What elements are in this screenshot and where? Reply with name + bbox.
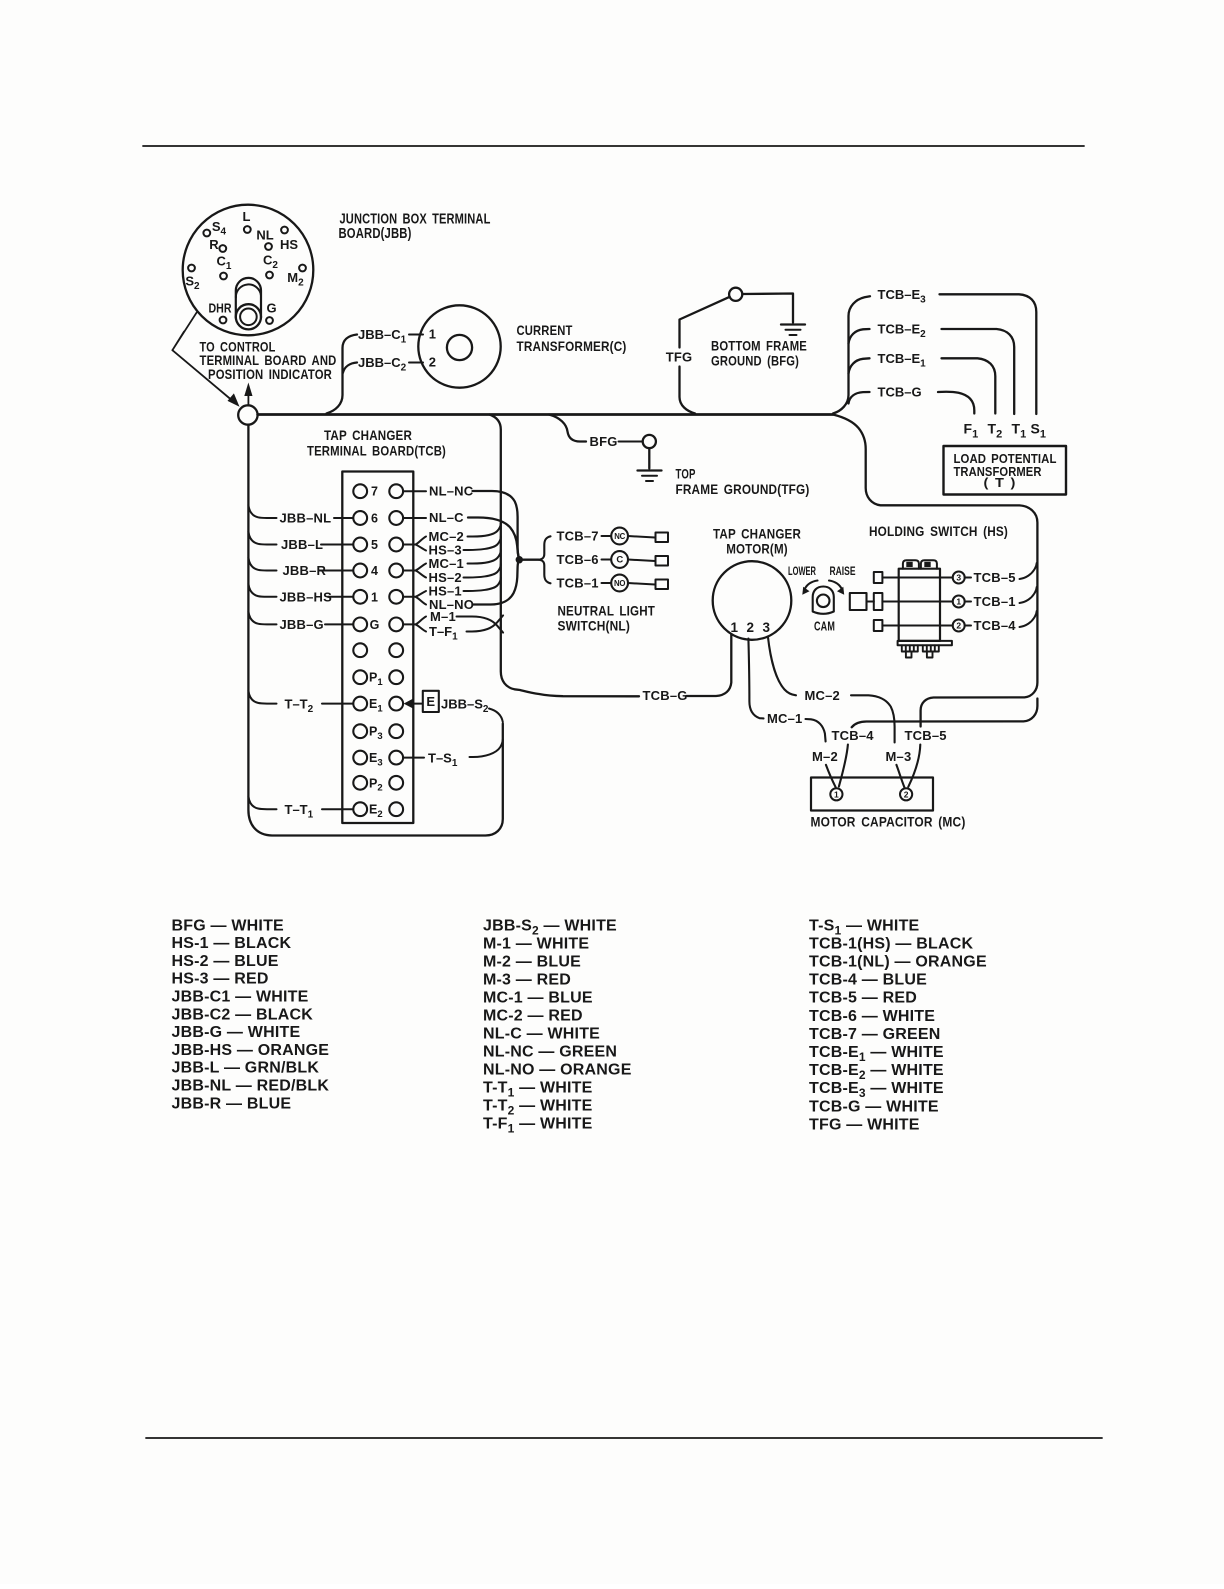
- wire TCB–6 to contact: [602, 559, 611, 561]
- svg-text:C: C: [616, 554, 623, 565]
- wire bundle stub MC-1: [468, 550, 501, 564]
- NL junction dot: [516, 556, 523, 563]
- wire HS 3 to label: [965, 577, 971, 579]
- NL lug NO: [656, 580, 669, 590]
- svg-text:JBB–C2: JBB–C2: [358, 355, 407, 374]
- TCB row 4 terminals: [353, 564, 367, 578]
- arrowhead at TCB E1: [404, 698, 414, 709]
- leader line to node with arrowhead: [172, 350, 231, 399]
- svg-text:E3: E3: [369, 751, 383, 768]
- HS feet group 1: [902, 645, 918, 651]
- svg-text:T1: T1: [1012, 421, 1027, 441]
- svg-text:5: 5: [371, 538, 378, 552]
- up arrow to position indicator: [247, 395, 249, 405]
- load potential transformer T box: [944, 446, 1067, 495]
- cam body: [813, 587, 834, 614]
- wire arrow to E box: [414, 703, 423, 705]
- HS row 1 line: [882, 601, 952, 603]
- wire branch TCB-G: [849, 392, 870, 404]
- wire JBB–G to TCB: [325, 623, 353, 625]
- wire big loop right: bus down to x866 right to x1037: [833, 415, 1037, 727]
- svg-text:TCB–6: TCB–6: [557, 552, 599, 567]
- wire to TFG ground symbol: [648, 448, 650, 468]
- svg-text:NL–NC: NL–NC: [429, 484, 474, 499]
- ground symbol TFG: [638, 469, 662, 471]
- JBB toggle bushing inner ring: [240, 309, 257, 326]
- wire bundle stub MC-2: [468, 523, 501, 537]
- svg-text:TCB–1: TCB–1: [557, 576, 599, 591]
- svg-text:M-3 — RED: M-3 — RED: [483, 971, 571, 988]
- wire hook TCB–5 to right trunk: [1020, 563, 1037, 579]
- svg-text:MC-1 — BLUE: MC-1 — BLUE: [483, 989, 593, 1006]
- wire TCB-G to F1: [938, 392, 974, 414]
- svg-text:M-2 — BLUE: M-2 — BLUE: [483, 953, 581, 970]
- top page rule: [143, 145, 1084, 147]
- wire hook left trunk to JBB-G: [248, 611, 276, 624]
- wire big loop left edge to TCB-G and motor terminal 1: [490, 415, 640, 697]
- wire T-T1 to TCB E2: [322, 808, 353, 810]
- svg-text:T-S1 — WHITE: T-S1 — WHITE: [809, 917, 920, 937]
- svg-text:M2: M2: [287, 270, 304, 289]
- wire JBB-C2 to CT pin 2: [409, 362, 423, 364]
- wire HS 1 to label: [965, 601, 971, 603]
- current transformer C outer ring: [418, 305, 500, 387]
- svg-text:NL-C — WHITE: NL-C — WHITE: [483, 1025, 600, 1042]
- main bus wire: [258, 413, 833, 416]
- svg-text:R: R: [209, 237, 219, 252]
- svg-text:1: 1: [730, 620, 738, 635]
- JBB terminal G: [266, 317, 273, 324]
- wire M-3 to capacitor 2: [896, 765, 904, 788]
- wire contact to lug: [628, 536, 655, 538]
- svg-text:L: L: [243, 209, 251, 224]
- svg-text:3: 3: [762, 620, 770, 635]
- svg-text:MC–2: MC–2: [805, 688, 840, 703]
- JBB terminal R: [219, 245, 226, 252]
- svg-text:TCB-7 — GREEN: TCB-7 — GREEN: [809, 1026, 941, 1043]
- TCB row 1 terminals: [353, 590, 367, 604]
- svg-text:TCB-1(HS) — BLACK: TCB-1(HS) — BLACK: [809, 935, 974, 952]
- svg-text:CAM: CAM: [814, 620, 835, 634]
- raise arrow arc: [829, 581, 842, 590]
- svg-text:( T ): ( T ): [984, 476, 1016, 490]
- wire hook left trunk to JBB-L: [248, 532, 276, 545]
- HS bottom flange: [898, 641, 952, 645]
- svg-text:JBB-HS — ORANGE: JBB-HS — ORANGE: [172, 1042, 330, 1059]
- wire fork TCB row to M-1 / T-F1: [403, 617, 426, 632]
- wire hook left trunk to JBB-HS: [248, 584, 276, 597]
- svg-text:RAISE: RAISE: [830, 566, 856, 578]
- wire hook left trunk to JBB-NL: [248, 505, 276, 518]
- NL lug NC: [656, 533, 669, 543]
- svg-text:TCB–E3: TCB–E3: [878, 287, 927, 306]
- wire JBB-S2 join to trunk: [489, 709, 503, 723]
- wire TCB–1 to contact: [602, 582, 611, 584]
- wire contact to lug: [628, 560, 655, 562]
- svg-text:T–T1: T–T1: [285, 802, 314, 821]
- wire TFG from bus: [680, 367, 696, 414]
- svg-text:E2: E2: [369, 803, 383, 820]
- wire hook left trunk to T-T1: [248, 796, 276, 809]
- svg-text:C1: C1: [217, 254, 232, 273]
- svg-text:JBB-G — WHITE: JBB-G — WHITE: [172, 1024, 301, 1041]
- top frame ground terminal circle: [643, 435, 656, 448]
- TCB row P3 terminals: [353, 724, 367, 738]
- svg-text:JBB–NL: JBB–NL: [280, 511, 332, 526]
- wire fork TCB row to MC-1 / HS-2: [403, 564, 426, 578]
- wire T-F1 crossing: [467, 615, 504, 631]
- svg-text:NL–C: NL–C: [429, 510, 464, 525]
- HS top cap right: [921, 560, 937, 569]
- JBB terminal S4: [203, 230, 210, 237]
- wire dot to brace: [523, 559, 539, 561]
- wire hook JBB-C2: [343, 363, 357, 374]
- svg-text:JBB-NL — RED/BLK: JBB-NL — RED/BLK: [172, 1078, 330, 1095]
- svg-text:NO: NO: [614, 579, 625, 588]
- svg-text:TCB-E2 — WHITE: TCB-E2 — WHITE: [809, 1062, 944, 1082]
- svg-text:HOLDING SWITCH (HS): HOLDING SWITCH (HS): [869, 523, 1008, 539]
- wire branch TCB-E2: [849, 329, 870, 344]
- JBB terminal C2: [266, 272, 273, 279]
- svg-text:MOTOR CAPACITOR (MC): MOTOR CAPACITOR (MC): [811, 814, 966, 830]
- link cam to HS: [867, 601, 874, 603]
- svg-text:4: 4: [371, 564, 378, 578]
- HS left square middle: [874, 593, 883, 610]
- JBB terminal C1: [220, 273, 227, 280]
- svg-text:BFG — WHITE: BFG — WHITE: [172, 917, 285, 934]
- JBB center toggle switch body: [236, 278, 261, 318]
- svg-text:TCB-G — WHITE: TCB-G — WHITE: [809, 1098, 939, 1115]
- NL brace: [539, 536, 551, 583]
- svg-text:TAP CHANGER: TAP CHANGER: [324, 427, 412, 443]
- svg-text:T-T2 — WHITE: T-T2 — WHITE: [483, 1097, 593, 1117]
- JBB terminal M2: [299, 265, 306, 272]
- JBB terminal NL: [265, 243, 272, 250]
- svg-text:T–T2: T–T2: [285, 696, 314, 715]
- TCB row G terminals: [353, 618, 367, 632]
- ground symbol BFG: [781, 323, 805, 325]
- svg-text:1: 1: [429, 327, 436, 342]
- HS top cap left: [903, 560, 919, 569]
- motor capacitor MC box: [811, 778, 933, 811]
- HS row 3 line: [882, 577, 952, 579]
- svg-text:TCB–E2: TCB–E2: [878, 322, 927, 341]
- wire TCB-G to motor terminal 1: [687, 635, 732, 697]
- wire BFG from bus: [549, 415, 586, 442]
- svg-text:E1: E1: [369, 697, 383, 714]
- wire TCB row7 to NL-NC: [403, 490, 426, 492]
- svg-text:MC-2 — RED: MC-2 — RED: [483, 1007, 583, 1024]
- svg-text:6: 6: [371, 512, 378, 526]
- svg-text:P1: P1: [369, 671, 383, 688]
- capacitor terminal 2: [900, 788, 912, 800]
- wire TCB–7 to contact: [602, 535, 611, 537]
- svg-text:TCB–5: TCB–5: [905, 728, 947, 743]
- svg-text:HS-1 — BLACK: HS-1 — BLACK: [172, 935, 292, 952]
- svg-text:TOP: TOP: [676, 466, 696, 482]
- tap changer terminal board TCB outline: [342, 472, 413, 824]
- TCB row P1 terminals: [353, 670, 367, 684]
- svg-text:TCB–4: TCB–4: [832, 728, 875, 743]
- svg-text:TCB-E1 — WHITE: TCB-E1 — WHITE: [809, 1044, 944, 1064]
- svg-text:T-F1 — WHITE: T-F1 — WHITE: [483, 1115, 593, 1135]
- svg-text:TRANSFORMER(C): TRANSFORMER(C): [517, 338, 627, 354]
- svg-text:S4: S4: [212, 219, 227, 238]
- svg-text:HS-2 — BLUE: HS-2 — BLUE: [172, 953, 279, 970]
- svg-text:M–2: M–2: [812, 749, 838, 764]
- HS feet group 2: [923, 645, 939, 651]
- svg-text:NL: NL: [256, 228, 273, 243]
- svg-text:BOARD(JBB): BOARD(JBB): [339, 226, 412, 242]
- wire NL-NC to NL trunk: [473, 491, 520, 559]
- capacitor terminal 1: [830, 788, 842, 800]
- wire TCB-E1 to T2: [942, 358, 996, 413]
- junction box terminal board JBB outer circle: [183, 205, 314, 336]
- cam follower square: [850, 593, 867, 610]
- svg-text:FRAME GROUND(TFG): FRAME GROUND(TFG): [676, 481, 810, 497]
- svg-text:NL-NO — ORANGE: NL-NO — ORANGE: [483, 1061, 632, 1078]
- HS row 2 line: [882, 625, 952, 627]
- wire hook TCB–4 to right trunk: [1020, 611, 1037, 627]
- svg-text:POSITION INDICATOR: POSITION INDICATOR: [208, 366, 332, 382]
- junction node circle: [238, 405, 257, 424]
- svg-text:TCB–G: TCB–G: [643, 688, 688, 703]
- wire JBB–L to TCB: [321, 544, 353, 546]
- bottom frame ground terminal circle: [729, 288, 742, 301]
- svg-text:F1: F1: [964, 421, 979, 441]
- svg-text:NL-NC — GREEN: NL-NC — GREEN: [483, 1043, 617, 1060]
- NL contact circle C: [611, 551, 628, 568]
- NL contact circle NC: [611, 528, 628, 545]
- wire hook left trunk to T-T2: [248, 691, 276, 704]
- svg-text:JBB–HS: JBB–HS: [280, 590, 333, 605]
- svg-text:TCB-4 — BLUE: TCB-4 — BLUE: [809, 972, 927, 989]
- svg-text:JBB-L — GRN/BLK: JBB-L — GRN/BLK: [172, 1060, 320, 1077]
- leader wedge from JBB to control board note: [172, 313, 196, 351]
- HS terminal circle 3: [953, 572, 965, 584]
- wire JBB–NL to TCB: [334, 517, 353, 519]
- svg-text:1: 1: [371, 590, 378, 604]
- svg-text:NC: NC: [614, 532, 625, 541]
- svg-text:JBB–G: JBB–G: [280, 617, 324, 632]
- TCB row blank terminals: [353, 643, 367, 657]
- svg-text:S1: S1: [1031, 421, 1046, 441]
- wire BFG to terminal circle: [619, 441, 643, 443]
- svg-text:C2: C2: [263, 253, 278, 272]
- svg-text:GROUND (BFG): GROUND (BFG): [711, 353, 799, 369]
- svg-text:M–3: M–3: [886, 749, 912, 764]
- svg-text:TAP CHANGER: TAP CHANGER: [713, 525, 801, 541]
- wire bundle stub HS-2: [464, 564, 501, 578]
- svg-text:TCB–1: TCB–1: [974, 594, 1016, 609]
- wire NL-C to NL trunk: [468, 518, 519, 559]
- svg-text:HS: HS: [280, 237, 298, 252]
- svg-text:3: 3: [956, 572, 961, 582]
- wire trunk TCB-E fan: [833, 296, 870, 413]
- svg-text:P2: P2: [369, 776, 383, 793]
- TCB row E1 terminals: [353, 697, 367, 711]
- svg-text:T–S1: T–S1: [428, 750, 458, 769]
- svg-text:TCB–7: TCB–7: [557, 529, 599, 544]
- HS body: [899, 569, 940, 641]
- wire JBB-C trunk to bus: [327, 335, 358, 414]
- current transformer inner hole: [447, 335, 472, 360]
- NL lug C: [656, 556, 669, 566]
- svg-text:BOTTOM FRAME: BOTTOM FRAME: [711, 338, 807, 354]
- wire JBB–R to TCB: [319, 570, 353, 572]
- svg-text:TERMINAL BOARD(TCB): TERMINAL BOARD(TCB): [307, 442, 446, 458]
- svg-text:TFG — WHITE: TFG — WHITE: [809, 1116, 920, 1133]
- HS terminal circle 2: [953, 620, 965, 632]
- wire NL-NO to NL trunk: [473, 560, 520, 605]
- wire T-T2 to TCB E1: [322, 703, 353, 705]
- wire HS 2 to label: [965, 625, 971, 627]
- JBB terminal HS: [281, 227, 288, 234]
- JBB toggle bushing outer ring: [236, 304, 261, 329]
- svg-text:SWITCH(NL): SWITCH(NL): [558, 618, 631, 634]
- svg-text:MC–1: MC–1: [767, 711, 802, 726]
- wire fork TCB row to MC-2 / HS-3: [403, 537, 426, 551]
- TCB row 7 terminals: [353, 484, 367, 498]
- svg-text:7: 7: [371, 485, 378, 499]
- TCB row P2 terminals: [353, 776, 367, 790]
- TCB row E2 terminals: [353, 802, 367, 816]
- wire left trunk from node down and around to JBB-S2 vertical: [248, 425, 502, 836]
- wire M-2 to capacitor 1: [826, 765, 836, 788]
- JBB terminal S2: [188, 265, 195, 272]
- svg-text:G: G: [370, 618, 380, 632]
- wire fork TCB row to HS-1 / NL-NO: [403, 591, 426, 605]
- lower arrow arc: [805, 581, 818, 590]
- wire MC-1 stub toward TCB-4: [806, 719, 826, 742]
- svg-text:JBB-R — BLUE: JBB-R — BLUE: [172, 1095, 292, 1112]
- svg-text:E: E: [426, 694, 435, 709]
- wire JBB–HS to TCB: [328, 596, 353, 598]
- svg-text:JBB–R: JBB–R: [283, 563, 327, 578]
- wire contact to lug: [628, 583, 655, 585]
- svg-text:M-1 — WHITE: M-1 — WHITE: [483, 935, 589, 952]
- JBB terminal L: [244, 226, 251, 233]
- svg-text:TCB–4: TCB–4: [974, 618, 1017, 633]
- svg-text:T-T1 — WHITE: T-T1 — WHITE: [483, 1079, 593, 1099]
- wire T-S1 join to trunk: [470, 740, 503, 758]
- svg-text:1: 1: [956, 596, 961, 606]
- wire TCB-5 to capacitor 2: [908, 745, 920, 787]
- svg-text:TCB-5 — RED: TCB-5 — RED: [809, 990, 917, 1007]
- svg-text:2: 2: [429, 355, 436, 370]
- wire TCB-4 to capacitor 1: [839, 745, 848, 787]
- cam circle: [817, 595, 830, 608]
- HS left square top: [874, 572, 883, 583]
- wire TCB-E2 to T1: [942, 329, 1015, 414]
- wire hook TCB–1 to right trunk: [1020, 587, 1037, 603]
- bottom page rule: [146, 1437, 1102, 1439]
- wire MC-2 down to M-3: [851, 695, 895, 742]
- svg-text:JBB–S2: JBB–S2: [441, 696, 489, 715]
- svg-text:P3: P3: [369, 725, 383, 742]
- svg-text:T2: T2: [988, 421, 1003, 441]
- E box: [423, 691, 439, 712]
- svg-text:JBB–C1: JBB–C1: [358, 327, 407, 346]
- svg-text:NEUTRAL LIGHT: NEUTRAL LIGHT: [558, 603, 656, 619]
- svg-text:TCB-6 — WHITE: TCB-6 — WHITE: [809, 1008, 935, 1025]
- svg-text:TCB–E1: TCB–E1: [878, 351, 927, 370]
- wire TCB-E3 to S1: [940, 294, 1037, 414]
- tap changer motor M circle: [713, 561, 792, 640]
- svg-text:MC–1: MC–1: [429, 556, 464, 571]
- JBB terminal DHR: [220, 317, 227, 324]
- HS left square bottom: [874, 620, 883, 631]
- svg-text:TCB–G: TCB–G: [878, 385, 922, 400]
- NL contact circle NO: [611, 575, 628, 592]
- svg-text:G: G: [266, 301, 276, 316]
- svg-text:T–F1: T–F1: [429, 624, 458, 643]
- wire TCB row6 to NL-C: [403, 517, 426, 519]
- wire motor terminal 2 to MC-1: [748, 639, 763, 719]
- HS terminal circle 1: [953, 596, 965, 608]
- wire hook left trunk to JBB-R: [248, 558, 276, 571]
- svg-text:M–1: M–1: [430, 609, 456, 624]
- wire to BFG ground: [742, 294, 793, 323]
- svg-text:TCB-E3 — WHITE: TCB-E3 — WHITE: [809, 1080, 944, 1100]
- svg-text:2: 2: [746, 620, 754, 635]
- TCB row 6 terminals: [353, 511, 367, 525]
- svg-text:2: 2: [956, 620, 961, 630]
- wire motor terminal 3 to MC-2: [768, 637, 796, 696]
- wire bundle stub HS-3: [464, 537, 501, 551]
- svg-text:JBB-C2 — BLACK: JBB-C2 — BLACK: [172, 1006, 314, 1023]
- svg-text:S2: S2: [185, 274, 200, 293]
- svg-text:TFG: TFG: [666, 350, 693, 365]
- svg-text:JBB–L: JBB–L: [281, 537, 323, 552]
- TCB row E3 terminals: [353, 751, 367, 765]
- svg-text:HS-3 — RED: HS-3 — RED: [172, 971, 269, 988]
- svg-text:LOWER: LOWER: [788, 566, 816, 578]
- svg-text:1: 1: [834, 789, 839, 799]
- wire branch TCB-E1: [849, 358, 870, 373]
- svg-text:TCB-1(NL) — ORANGE: TCB-1(NL) — ORANGE: [809, 954, 987, 971]
- wire bundle stub HS-1: [464, 578, 501, 592]
- svg-text:TCB–5: TCB–5: [974, 570, 1016, 585]
- wire JBB-C1 to CT pin 1: [409, 334, 423, 336]
- wire M-1 crossing: [457, 617, 504, 633]
- TCB row 5 terminals: [353, 538, 367, 552]
- svg-text:BFG: BFG: [590, 434, 618, 449]
- svg-text:JBB-C1 — WHITE: JBB-C1 — WHITE: [172, 989, 309, 1006]
- svg-text:DHR: DHR: [209, 301, 232, 316]
- wire TCB E3 to T-S1: [403, 757, 424, 759]
- svg-text:MOTOR(M): MOTOR(M): [726, 540, 788, 556]
- wire big loop second exit to TCB-4: [852, 699, 1038, 728]
- svg-text:CURRENT: CURRENT: [517, 322, 573, 338]
- svg-text:JBB-S2 — WHITE: JBB-S2 — WHITE: [483, 917, 617, 937]
- svg-text:2: 2: [904, 789, 909, 799]
- wire TFG above label: [680, 297, 730, 348]
